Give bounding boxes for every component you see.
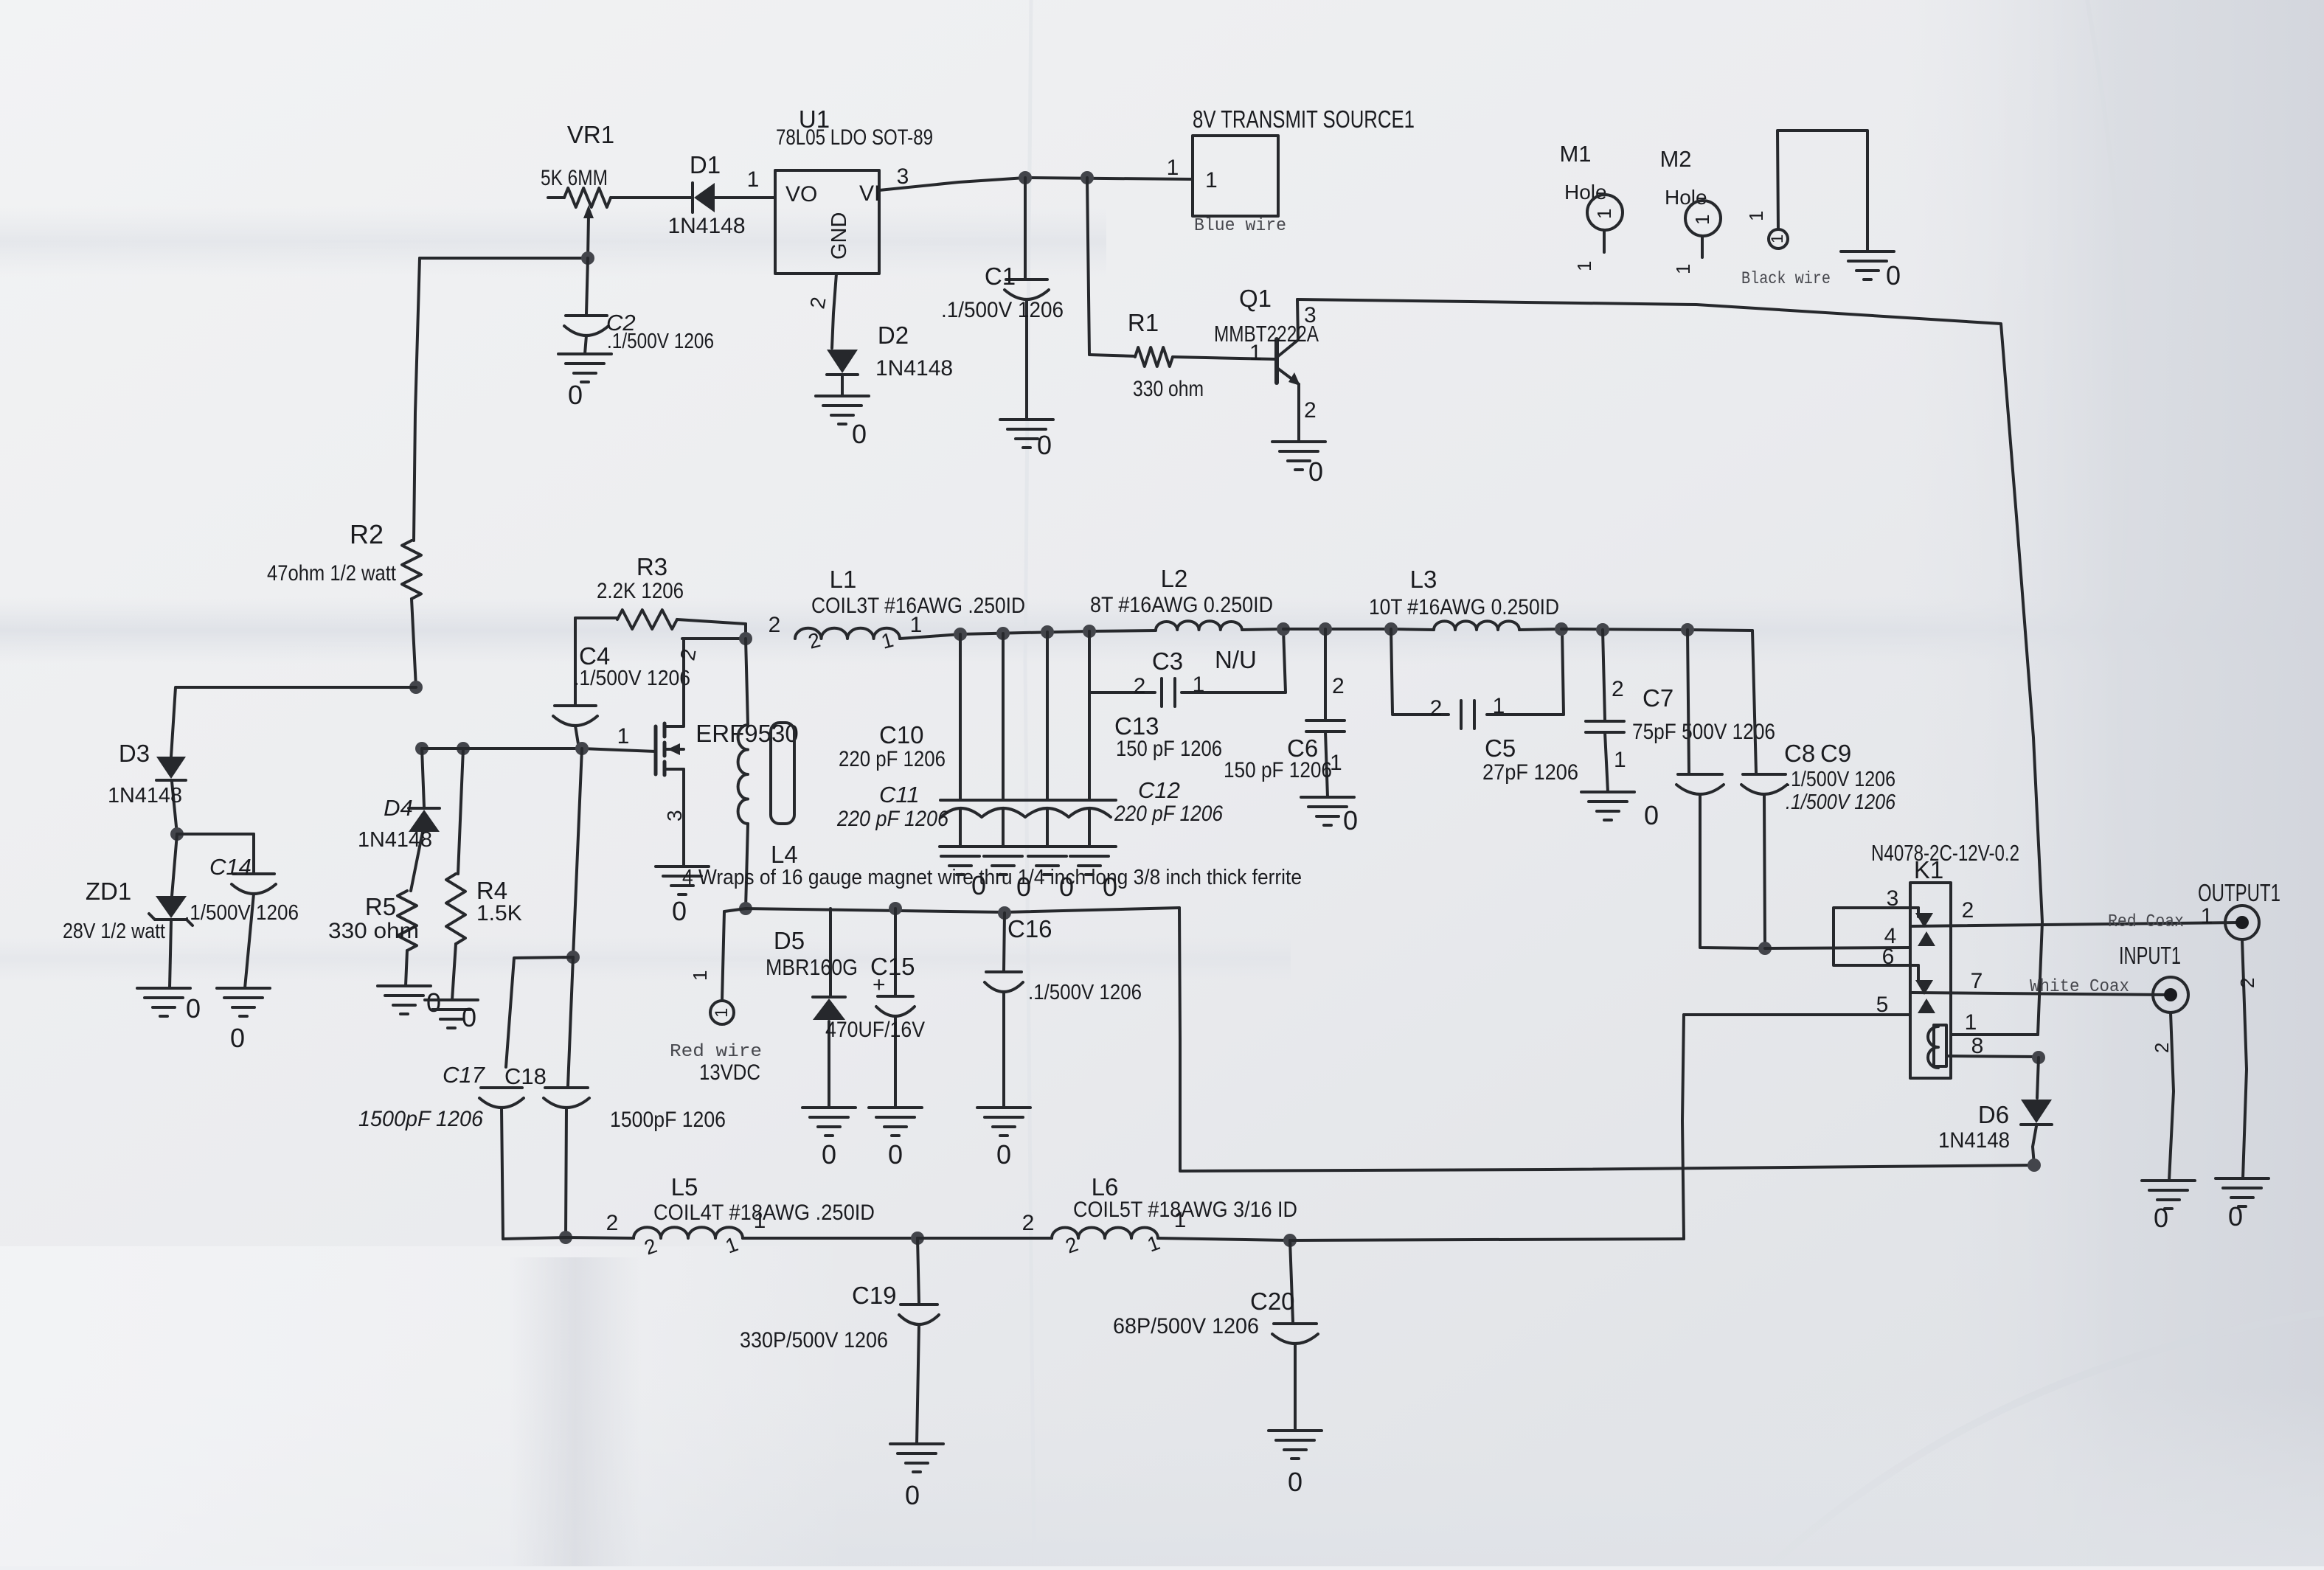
wire gate node [422, 748, 656, 751]
OUTPUT1 coax connector [2198, 879, 2280, 939]
junction dot C10a [954, 628, 967, 641]
svg-text:D6: D6 [1978, 1101, 2009, 1128]
capacitor C3 N/U [1089, 629, 1286, 706]
ground below C14 [217, 988, 270, 1053]
svg-text:C8: C8 [1784, 740, 1815, 767]
svg-text:C15: C15 [870, 953, 915, 980]
INPUT1 coax connector [2119, 942, 2188, 1012]
svg-text:1: 1 [1205, 168, 1218, 192]
svg-text:R2: R2 [350, 519, 384, 549]
wire rail L1 to L2 [960, 631, 1156, 634]
ground below C15 [869, 1108, 922, 1170]
svg-text:1: 1 [689, 970, 711, 981]
svg-text:VI: VI [859, 181, 880, 206]
wire Q1 collector long run to relay pin 1 [1297, 299, 2042, 1035]
svg-text:L3: L3 [1410, 566, 1437, 593]
ground below C16 [977, 1108, 1030, 1170]
OUTPUT1 ground wire [2236, 939, 2258, 1178]
capacitor C20 68P/500V 1206 [1113, 1240, 1318, 1431]
svg-text:D3: D3 [119, 740, 150, 767]
wire U1 GND to D2 [832, 274, 836, 348]
svg-text:0: 0 [852, 419, 867, 449]
relay pin 5 wire [1684, 993, 1910, 1017]
junction dot C8 C9 bottom [1758, 942, 1772, 955]
resistor R5 330 ohm [328, 891, 419, 986]
junction dot D3 cathode [170, 827, 184, 841]
junction dot drain rail [739, 632, 752, 645]
svg-text:Hole: Hole [1665, 186, 1707, 209]
svg-text:Red Coax: Red Coax [2108, 912, 2184, 932]
junction dot C16 tap [998, 906, 1011, 920]
svg-text:R4: R4 [476, 877, 507, 904]
wire L3 to C7 C8 [1561, 629, 1752, 631]
junction dot VR1 node [581, 251, 594, 265]
svg-text:330 ohm: 330 ohm [328, 919, 419, 943]
inductor L4 4 wraps [738, 639, 798, 909]
svg-text:C17: C17 [443, 1062, 486, 1088]
ground below MOSFET source [656, 866, 709, 926]
svg-text:M1: M1 [1559, 141, 1591, 167]
svg-text:L5: L5 [671, 1173, 698, 1201]
svg-text:R5: R5 [365, 893, 396, 920]
relay pin 7 wire to INPUT1 [1912, 969, 2168, 997]
svg-text:1: 1 [1593, 209, 1615, 219]
junction dot C4 gate [575, 742, 589, 755]
svg-text:1N4148: 1N4148 [108, 784, 182, 807]
svg-text:1: 1 [747, 167, 760, 192]
svg-text:1: 1 [1167, 156, 1179, 180]
svg-text:2: 2 [1962, 898, 1974, 923]
svg-text:5K 6MM: 5K 6MM [541, 166, 608, 190]
junction dot C13 tap [1083, 625, 1096, 638]
svg-text:0: 0 [2154, 1203, 2168, 1233]
junction dot C1 tap [1019, 171, 1032, 184]
MOSFET Q ERF9530 [656, 639, 799, 866]
svg-text:C20: C20 [1250, 1288, 1295, 1315]
svg-text:0: 0 [971, 870, 986, 900]
svg-text:R3: R3 [637, 553, 667, 580]
svg-text:1N4148: 1N4148 [358, 828, 432, 852]
svg-text:330P/500V 1206: 330P/500V 1206 [740, 1328, 888, 1352]
inductor L5 COIL4T [606, 1173, 918, 1260]
svg-text:3: 3 [663, 810, 686, 822]
inductor L6 COIL5T [1022, 1173, 1297, 1258]
svg-text:8: 8 [1971, 1034, 1984, 1058]
svg-text:R1: R1 [1128, 309, 1159, 336]
ground below OUTPUT1 [2216, 1178, 2269, 1232]
svg-text:0: 0 [1343, 805, 1358, 836]
svg-text:2: 2 [769, 613, 781, 637]
svg-text:.1/500V 1206: .1/500V 1206 [184, 901, 299, 925]
junction dot R2 bottom [409, 681, 423, 694]
diode D6 1N4148 [1938, 1057, 2052, 1165]
svg-text:1: 1 [1691, 215, 1713, 225]
svg-text:0: 0 [905, 1480, 920, 1510]
svg-text:Blue wire: Blue wire [1194, 216, 1286, 236]
svg-text:C16: C16 [1007, 915, 1052, 942]
junction dot C11a [1041, 625, 1054, 639]
svg-text:Hole: Hole [1564, 181, 1607, 204]
drain rail [682, 637, 746, 640]
svg-text:0: 0 [568, 380, 583, 410]
svg-text:1: 1 [1573, 261, 1595, 271]
svg-text:1: 1 [1249, 341, 1262, 365]
svg-text:D2: D2 [878, 322, 909, 349]
capacitor C6 150 pF 1206 [1224, 629, 1345, 797]
13VDC rail [724, 908, 1179, 912]
resistor R3 2.2K 1206 [575, 553, 746, 639]
svg-text:1: 1 [754, 1209, 766, 1233]
junction dot C8 tap [1681, 623, 1694, 636]
svg-text:.1/500V 1206: .1/500V 1206 [941, 298, 1064, 322]
svg-text:1: 1 [910, 613, 923, 637]
svg-text:C13: C13 [1114, 712, 1159, 740]
ground below ZD1 [137, 988, 201, 1024]
svg-text:L1: L1 [830, 566, 857, 593]
svg-text:1500pF 1206: 1500pF 1206 [358, 1107, 483, 1131]
ground for Black wire [1841, 251, 1901, 291]
svg-text:1N4148: 1N4148 [1938, 1128, 2010, 1153]
svg-text:C9: C9 [1820, 740, 1851, 767]
diode D4 1N4148 [358, 748, 440, 891]
capacitor C14 .1/500V 1206 [177, 834, 299, 988]
junction dot C18 bottom [559, 1231, 572, 1244]
svg-text:1N4148: 1N4148 [875, 356, 953, 381]
svg-text:D4: D4 [384, 795, 413, 821]
junction dot C7 tap [1596, 623, 1609, 636]
svg-text:1: 1 [1614, 748, 1626, 772]
potentiometer VR1 5K 6MM [541, 121, 624, 258]
ground below D2 [816, 396, 869, 449]
inductor L2 8T [1090, 565, 1283, 630]
svg-text:N4078-2C-12V-0.2: N4078-2C-12V-0.2 [1871, 840, 2019, 866]
svg-text:GND: GND [828, 212, 851, 260]
ground below C2 [558, 354, 611, 410]
ground below Q1 [1272, 442, 1325, 487]
ground below C7 [1581, 792, 1659, 830]
svg-text:1: 1 [1768, 235, 1786, 243]
relay coil [1928, 1025, 1946, 1068]
svg-text:27pF 1206: 27pF 1206 [1482, 760, 1578, 785]
transistor Q1 MMBT2222A [1214, 285, 1319, 442]
svg-text:2: 2 [1134, 674, 1146, 698]
junction dot C17 C18 split [566, 951, 580, 964]
svg-text:1: 1 [2201, 904, 2213, 928]
svg-text:0: 0 [888, 1139, 903, 1170]
svg-text:M2: M2 [1659, 146, 1691, 172]
svg-text:Q1: Q1 [1239, 285, 1272, 312]
svg-text:C5: C5 [1485, 734, 1516, 762]
svg-text:0: 0 [426, 987, 441, 1018]
svg-text:0: 0 [996, 1139, 1011, 1170]
ground below D5 [802, 1108, 856, 1170]
svg-text:0: 0 [2228, 1201, 2243, 1232]
svg-text:VR1: VR1 [567, 121, 614, 148]
svg-text:2: 2 [1304, 398, 1317, 423]
svg-text:C3: C3 [1152, 647, 1183, 675]
svg-text:220 pF 1206: 220 pF 1206 [839, 747, 946, 771]
svg-text:150 pF 1206: 150 pF 1206 [1224, 758, 1332, 782]
svg-text:0: 0 [1059, 872, 1074, 902]
capacitor C15 470UF/16V [825, 909, 925, 1108]
voltage regulator U1 78L05 LDO SOT-89 [775, 105, 933, 274]
hole M1 [1559, 141, 1623, 271]
svg-text:47ohm 1/2 watt: 47ohm 1/2 watt [267, 561, 397, 586]
Black wire port [1741, 131, 1867, 288]
wire L2 to L3 [1283, 629, 1434, 630]
junction dot R1 tap [1081, 171, 1094, 184]
svg-text:.1/500V 1206: .1/500V 1206 [1028, 981, 1142, 1004]
svg-text:C4: C4 [579, 642, 610, 670]
svg-text:3: 3 [897, 164, 909, 189]
capacitor C2 .1/500V 1206 [564, 310, 714, 354]
svg-text:4 Wraps of 16 gauge magnet wir: 4 Wraps of 16 gauge magnet wire thru 1/4… [682, 866, 1302, 889]
svg-text:4: 4 [1884, 924, 1897, 948]
wire 13VDC to D6 return [1179, 908, 2034, 1171]
svg-text:150 pF 1206: 150 pF 1206 [1116, 737, 1222, 761]
svg-text:0: 0 [1644, 800, 1659, 830]
svg-text:0: 0 [672, 896, 687, 926]
svg-text:VO: VO [785, 182, 817, 206]
svg-text:0: 0 [1103, 872, 1117, 902]
diode D5 MBR160G [766, 909, 858, 1108]
svg-text:10T #16AWG 0.250ID: 10T #16AWG 0.250ID [1369, 595, 1559, 619]
svg-text:3: 3 [1887, 886, 1899, 911]
ground below INPUT1 [2142, 1181, 2195, 1233]
svg-text:2: 2 [2236, 978, 2258, 988]
svg-text:28V 1/2 watt: 28V 1/2 watt [63, 920, 165, 943]
svg-text:0: 0 [186, 993, 201, 1024]
relay pin 8 wire [1949, 1034, 2039, 1058]
junction dot L2 right [1277, 622, 1290, 636]
ground below C20 [1269, 1431, 1322, 1497]
capacitor C13 150 pF 1206 label [1114, 712, 1222, 761]
pin 1 label gate [617, 724, 630, 748]
pin 2 label U1 GND [805, 295, 830, 310]
wire rail to L6 [918, 1237, 1052, 1240]
svg-text:5: 5 [1876, 993, 1889, 1017]
junction dot L4 bottom [739, 902, 752, 915]
svg-text:1: 1 [1745, 211, 1767, 221]
wire VR1 wiper to left rail [420, 257, 588, 260]
ground below C6 [1301, 797, 1358, 836]
diode D2 1N4148 [827, 322, 953, 396]
bottom rail left [503, 1237, 634, 1239]
INPUT1 ground wire [2151, 1012, 2174, 1181]
svg-text:D5: D5 [774, 927, 805, 954]
capacitor C1 .1/500V 1206 [941, 178, 1064, 420]
relay pin 2 wire to OUTPUT1 [1912, 898, 2239, 932]
svg-text:Black wire: Black wire [1741, 269, 1831, 288]
capacitor bank C10 C11 C12 shunt caps [836, 631, 1223, 847]
svg-text:220 pF 1206: 220 pF 1206 [836, 807, 948, 831]
ground below R5 [378, 986, 441, 1018]
wire C4 node down [573, 748, 582, 957]
svg-text:C19: C19 [852, 1282, 897, 1309]
svg-text:2: 2 [606, 1211, 619, 1235]
Red wire 13VDC port [670, 911, 762, 1085]
svg-text:L6: L6 [1092, 1173, 1119, 1201]
hole M2 [1659, 146, 1721, 274]
svg-text:2: 2 [1430, 696, 1443, 720]
junction dot R4 tap [457, 742, 470, 755]
svg-text:2: 2 [1022, 1211, 1035, 1235]
relay pin 3 wire and loop to pin 6 [1834, 886, 1918, 981]
junction dot D6 bottom [2028, 1159, 2041, 1172]
junction dot C6 tap [1319, 622, 1332, 636]
svg-text:1: 1 [712, 1008, 732, 1018]
svg-text:Red wire: Red wire [670, 1042, 762, 1062]
ground below C19 [890, 1444, 943, 1510]
svg-text:2: 2 [1332, 674, 1345, 698]
svg-text:1: 1 [1174, 1208, 1187, 1232]
inductor L1 COIL3T [769, 566, 1025, 653]
capacitor C8 .1/500V 1206 [1676, 630, 1815, 948]
svg-text:0: 0 [1037, 430, 1052, 460]
svg-text:.1/500V 1206: .1/500V 1206 [1786, 768, 1895, 791]
grounds below capacitor bank [940, 847, 1117, 902]
capacitor C17 1500pF 1206 [358, 957, 573, 1239]
junction dot C5 right [1555, 622, 1568, 636]
capacitor C9 .1/500V 1206 [1741, 631, 1896, 948]
svg-text:C12: C12 [1138, 777, 1180, 803]
svg-text:330 ohm: 330 ohm [1133, 377, 1204, 401]
svg-text:0: 0 [822, 1139, 836, 1170]
svg-text:2.2K 1206: 2.2K 1206 [597, 579, 684, 603]
capacitor C19 330P/500V 1206 [740, 1238, 939, 1444]
svg-text:78L05 LDO SOT-89: 78L05 LDO SOT-89 [776, 125, 933, 150]
junction dot C5 left tap [1384, 622, 1398, 636]
8V TRANSMIT SOURCE1 box [1193, 105, 1415, 236]
svg-text:1500pF 1206: 1500pF 1206 [610, 1108, 726, 1132]
svg-text:8V TRANSMIT SOURCE1: 8V TRANSMIT SOURCE1 [1193, 105, 1415, 133]
relay pin 1 wire [1951, 1010, 2038, 1035]
wire U1 VI to source box [879, 156, 1193, 190]
svg-text:13VDC: 13VDC [699, 1060, 760, 1085]
note 4 wraps ferrite [682, 866, 1302, 889]
svg-text:2: 2 [2151, 1043, 2173, 1053]
svg-text:OUTPUT1: OUTPUT1 [2198, 879, 2280, 906]
svg-text:68P/500V 1206: 68P/500V 1206 [1113, 1314, 1259, 1338]
relay pin 4 wire [1765, 924, 1910, 948]
svg-text:0: 0 [1886, 260, 1901, 291]
wire VR1 node down left side [414, 258, 420, 541]
svg-text:N/U: N/U [1215, 646, 1257, 673]
svg-text:0: 0 [1308, 456, 1323, 487]
svg-text:ZD1: ZD1 [86, 878, 131, 905]
capacitor C7 75pF 500V 1206 [1586, 630, 1775, 792]
svg-text:.1/500V 1206: .1/500V 1206 [607, 330, 714, 353]
svg-text:D1: D1 [690, 151, 721, 178]
wire to D3 branch [171, 687, 416, 757]
resistor R1 330 ohm [1087, 178, 1274, 401]
svg-text:.1/500V 1206: .1/500V 1206 [1786, 791, 1896, 814]
inductor L3 10T [1369, 566, 1561, 630]
svg-text:2: 2 [1612, 677, 1624, 701]
svg-text:C14: C14 [209, 854, 252, 880]
svg-text:470UF/16V: 470UF/16V [825, 1018, 925, 1042]
svg-text:0: 0 [1288, 1467, 1303, 1497]
ground below C1 [1000, 420, 1053, 460]
svg-text:L2: L2 [1161, 565, 1188, 592]
capacitor C5 27pF 1206 [1391, 629, 1578, 785]
junction dot C15 tap [889, 902, 902, 915]
svg-text:1: 1 [1672, 264, 1694, 274]
relay contact arrows lower [1915, 980, 1935, 1013]
diode D3 1N4148 [108, 740, 186, 834]
svg-text:7: 7 [1971, 969, 1983, 993]
svg-text:1.5K: 1.5K [476, 901, 522, 925]
resistor R2 47ohm 1/2 watt [267, 519, 421, 687]
svg-text:0: 0 [1016, 872, 1031, 902]
bottom rail to relay pin 5 [1290, 1015, 1684, 1240]
svg-text:C10: C10 [879, 721, 924, 748]
capacitor C4 .1/500V 1206 [553, 618, 690, 748]
svg-text:3: 3 [1304, 303, 1317, 327]
svg-text:C1: C1 [985, 263, 1016, 290]
svg-text:.1/500V 1206: .1/500V 1206 [574, 667, 690, 690]
svg-text:C7: C7 [1643, 684, 1673, 712]
diode D1 1N4148 [624, 151, 775, 238]
relay K1 N4078-2C-12V-0.2 box [1871, 840, 2019, 1078]
junction dot pin 8 D6 [2032, 1051, 2045, 1064]
relay contact arrows upper [1915, 913, 1935, 946]
svg-text:8T #16AWG 0.250ID: 8T #16AWG 0.250ID [1090, 593, 1273, 617]
svg-text:C11: C11 [879, 782, 920, 807]
ground below R4 [425, 1000, 478, 1032]
svg-text:0: 0 [230, 1023, 245, 1053]
svg-text:1: 1 [1965, 1010, 1977, 1035]
svg-text:L4: L4 [771, 841, 798, 868]
capacitor C18 1500pF 1206 [504, 957, 726, 1237]
svg-text:MMBT2222A: MMBT2222A [1214, 321, 1319, 347]
junction dot gate node left [415, 742, 429, 755]
svg-text:INPUT1: INPUT1 [2119, 942, 2181, 969]
svg-text:1: 1 [1493, 694, 1505, 718]
svg-text:MBR160G: MBR160G [766, 954, 858, 980]
resistor R4 1.5K [446, 748, 522, 1000]
svg-text:1: 1 [1193, 673, 1205, 697]
wire down to C2 [586, 258, 588, 314]
capacitor C16 .1/500V 1206 [985, 913, 1142, 1108]
svg-text:White Coax: White Coax [2030, 977, 2129, 997]
svg-text:1N4148: 1N4148 [667, 214, 745, 238]
svg-text:1: 1 [617, 724, 630, 748]
junction dot C20 tap [1283, 1234, 1297, 1247]
zener diode ZD1 28V 1/2 watt [63, 834, 192, 988]
junction dot C19 tap [911, 1232, 924, 1245]
svg-text:220 pF 1206: 220 pF 1206 [1114, 802, 1223, 826]
junction dot C10b [996, 627, 1010, 640]
svg-text:0: 0 [462, 1002, 476, 1032]
svg-text:C18: C18 [504, 1063, 547, 1089]
